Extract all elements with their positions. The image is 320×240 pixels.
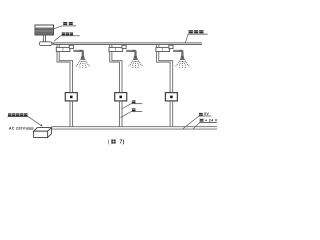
branch tee stem	[110, 45, 112, 48]
leader to filter	[54, 36, 61, 41]
valve body	[56, 47, 70, 51]
label 红 (wire at valve 2)	[122, 100, 143, 109]
outlet pipe	[73, 50, 79, 51]
spray branch 2 (S=110.8, P=120.7)	[109, 45, 143, 127]
label 黑 0V	[183, 112, 211, 129]
branch down pipe with jog	[57, 52, 73, 93]
power bus wires	[52, 127, 217, 129]
svg-text:+ 24 V: + 24 V	[205, 119, 218, 123]
leader to main pipe	[185, 34, 188, 43]
elbow	[132, 51, 135, 55]
pipe below valve 1	[70, 101, 73, 127]
outlet pipe	[173, 50, 179, 51]
elbow	[80, 51, 83, 55]
pipe below valve 3	[170, 101, 173, 127]
svg-text:0V: 0V	[204, 112, 209, 116]
solenoid valve 2	[115, 93, 127, 101]
caption (图 7)	[108, 139, 125, 145]
water tank	[35, 25, 54, 35]
branch tee stem	[157, 45, 159, 48]
spray droplets	[128, 61, 142, 68]
main pipe	[54, 43, 202, 45]
valve bonnet	[69, 45, 73, 48]
spray droplets	[76, 61, 90, 68]
spray branch 3 (S=157.7, P=171.4)	[156, 45, 190, 127]
spray branch 1 (S=58.1, P=71.3)	[56, 45, 90, 127]
power adapter (3D box)	[34, 128, 52, 138]
label 总管线	[185, 30, 207, 43]
elbow	[179, 51, 182, 55]
valve bonnet	[122, 45, 126, 48]
valve bonnet	[169, 45, 173, 48]
filter	[39, 42, 52, 46]
svg-text:7): 7)	[120, 139, 125, 145]
nozzle	[180, 55, 184, 59]
label 黑 (wire at valve 2)	[121, 108, 143, 117]
valve body	[156, 47, 170, 51]
svg-text:AC 220V: AC 220V	[9, 126, 26, 130]
tank outlet pipe	[43, 35, 45, 42]
solenoid valve 1	[65, 93, 77, 101]
label 水箱	[53, 22, 76, 29]
label 电源适配器	[8, 113, 43, 126]
nozzle	[134, 55, 138, 59]
label 过滤器	[54, 32, 80, 41]
outlet pipe	[126, 50, 132, 51]
pipe below valve 2	[119, 101, 122, 127]
branch tee stem	[57, 45, 59, 48]
wire from AC to adapter	[26, 128, 34, 129]
nozzle	[81, 55, 85, 59]
label 红 +24V	[193, 119, 218, 129]
branch down pipe with jog	[110, 52, 122, 93]
solenoid valve 3	[165, 93, 177, 101]
valve body	[109, 47, 123, 51]
branch down pipe with jog	[157, 52, 173, 93]
leader to tank	[53, 26, 62, 29]
spray droplets	[175, 61, 189, 68]
filter outlet connector	[52, 42, 54, 44]
leader with arrow to adapter	[28, 117, 42, 126]
